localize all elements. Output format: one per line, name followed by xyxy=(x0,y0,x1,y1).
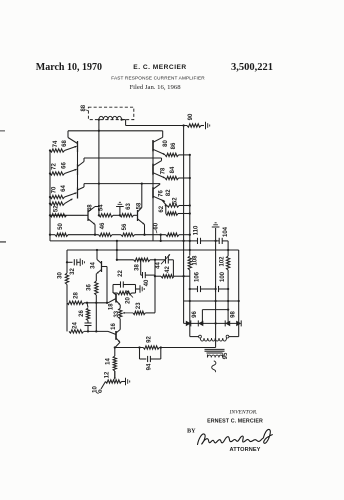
svg-text:10: 10 xyxy=(93,386,99,393)
svg-text:44: 44 xyxy=(155,262,161,269)
svg-text:38: 38 xyxy=(135,264,141,271)
svg-text:64: 64 xyxy=(61,185,67,192)
svg-text:58: 58 xyxy=(137,202,143,209)
svg-text:Filed Jan. 16, 1968: Filed Jan. 16, 1968 xyxy=(129,84,181,91)
svg-text:106: 106 xyxy=(195,271,201,282)
svg-text:14: 14 xyxy=(106,358,112,365)
svg-text:50: 50 xyxy=(58,223,64,230)
svg-text:63: 63 xyxy=(126,203,132,210)
svg-text:12: 12 xyxy=(105,371,111,378)
svg-text:22: 22 xyxy=(118,270,124,277)
svg-text:70: 70 xyxy=(52,186,58,193)
svg-text:ATTORNEY: ATTORNEY xyxy=(229,447,260,453)
svg-text:3,500,221: 3,500,221 xyxy=(231,62,273,73)
svg-text:95: 95 xyxy=(223,352,229,359)
svg-text:76: 76 xyxy=(159,190,165,197)
svg-text:98: 98 xyxy=(231,311,237,318)
svg-text:16: 16 xyxy=(111,323,117,330)
svg-text:84: 84 xyxy=(170,166,176,173)
svg-text:E. C. MERCIER: E. C. MERCIER xyxy=(133,64,186,71)
svg-text:82: 82 xyxy=(166,189,172,196)
svg-text:18: 18 xyxy=(109,303,115,310)
svg-text:42: 42 xyxy=(165,266,171,273)
svg-text:INVENTOR.: INVENTOR. xyxy=(228,410,257,416)
svg-text:48: 48 xyxy=(88,204,94,211)
svg-text:62: 62 xyxy=(159,205,165,212)
svg-text:52: 52 xyxy=(54,205,60,212)
svg-text:86: 86 xyxy=(171,142,177,149)
svg-text:74: 74 xyxy=(53,140,59,147)
svg-text:108: 108 xyxy=(193,255,199,266)
svg-text:92: 92 xyxy=(147,336,153,343)
svg-text:66: 66 xyxy=(62,162,68,169)
svg-text:23: 23 xyxy=(136,302,142,309)
svg-text:78: 78 xyxy=(161,167,167,174)
svg-text:March 10, 1970: March 10, 1970 xyxy=(36,62,102,73)
svg-text:36: 36 xyxy=(87,284,93,291)
svg-text:BY: BY xyxy=(187,428,196,435)
svg-text:32: 32 xyxy=(70,268,76,275)
svg-text:102: 102 xyxy=(220,256,226,267)
svg-text:110: 110 xyxy=(194,225,200,235)
svg-text:28: 28 xyxy=(74,292,80,299)
svg-text:ERNEST C. MERCIER: ERNEST C. MERCIER xyxy=(207,419,263,425)
svg-text:56: 56 xyxy=(122,223,128,230)
svg-text:34: 34 xyxy=(91,262,97,269)
svg-text:30: 30 xyxy=(58,272,64,279)
svg-text:80: 80 xyxy=(163,140,169,147)
svg-text:94: 94 xyxy=(147,363,153,370)
svg-text:96: 96 xyxy=(192,311,198,318)
svg-text:24: 24 xyxy=(73,322,79,329)
svg-text:90: 90 xyxy=(188,113,194,120)
svg-text:72: 72 xyxy=(52,163,58,170)
svg-text:104: 104 xyxy=(223,226,229,237)
svg-text:60: 60 xyxy=(153,222,159,229)
svg-text:FAST RESPONSE CURRENT AMPLIFIE: FAST RESPONSE CURRENT AMPLIFIER xyxy=(111,76,205,81)
svg-text:68: 68 xyxy=(62,140,68,147)
svg-text:26: 26 xyxy=(79,310,85,317)
svg-text:100: 100 xyxy=(220,271,226,282)
svg-text:88: 88 xyxy=(81,104,87,111)
svg-text:20: 20 xyxy=(126,297,132,304)
svg-text:54: 54 xyxy=(99,204,105,211)
svg-text:52: 52 xyxy=(173,197,179,204)
svg-text:33: 33 xyxy=(114,310,120,317)
svg-text:46: 46 xyxy=(100,222,106,229)
svg-text:40: 40 xyxy=(144,279,150,286)
